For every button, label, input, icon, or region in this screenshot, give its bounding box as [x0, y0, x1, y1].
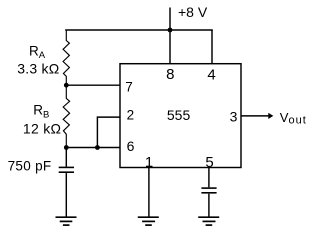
- resistor RB: [63, 85, 69, 147]
- resistor RA: [63, 30, 69, 85]
- wire pin 7: [66, 84, 121, 86]
- svg-text:12 kΩ: 12 kΩ: [23, 121, 61, 137]
- svg-text:RA: RA: [29, 43, 46, 61]
- ground (pin 1): [138, 217, 159, 225]
- wire pin 3 output: [241, 115, 270, 117]
- svg-text:8: 8: [166, 66, 174, 83]
- svg-text:7: 7: [125, 80, 133, 95]
- wire pin 5: [208, 168, 210, 188]
- junction dot supply: [168, 28, 173, 33]
- junction node B (RB-C, pin 6): [64, 145, 69, 150]
- wire to timing capacitor: [65, 148, 67, 167]
- wire top supply rail: [65, 29, 213, 31]
- svg-text:4: 4: [207, 66, 215, 83]
- svg-text:1: 1: [145, 154, 153, 171]
- svg-text:3.3 kΩ: 3.3 kΩ: [17, 60, 59, 76]
- wire pin 6: [66, 147, 121, 149]
- pin 1 label serif foot: [146, 165, 152, 167]
- svg-text:2: 2: [127, 108, 135, 123]
- svg-text:3: 3: [230, 108, 238, 124]
- junction node A (RA-RB, pin 7): [64, 83, 69, 88]
- op-amp U1 555 timer body: [120, 64, 241, 168]
- svg-text:6: 6: [127, 138, 135, 154]
- svg-text:750 pF: 750 pF: [8, 159, 52, 174]
- wire reset drop to pin 4: [211, 30, 213, 64]
- wire pin 5 capacitor to ground: [208, 194, 210, 217]
- ground (pin 5): [198, 217, 219, 225]
- arrowhead output: [268, 113, 273, 119]
- wire pin 1 to ground: [148, 168, 150, 217]
- wire Vcc drop to pin 8: [169, 30, 171, 64]
- wire capacitor to ground: [65, 173, 67, 216]
- svg-text:+8 V: +8 V: [178, 4, 208, 20]
- capacitor C 750pF: [59, 167, 74, 172]
- svg-text:555: 555: [167, 107, 191, 123]
- wire +8V stub: [169, 8, 171, 31]
- wire pin 2 branch: [97, 117, 120, 147]
- svg-text:Vout: Vout: [280, 110, 307, 126]
- svg-text:RB: RB: [33, 103, 49, 121]
- svg-text:5: 5: [205, 154, 213, 171]
- capacitor C2 (pin 5 bypass): [201, 188, 216, 193]
- junction pin 2 branch: [95, 145, 100, 150]
- ground (timing capacitor): [56, 217, 77, 225]
